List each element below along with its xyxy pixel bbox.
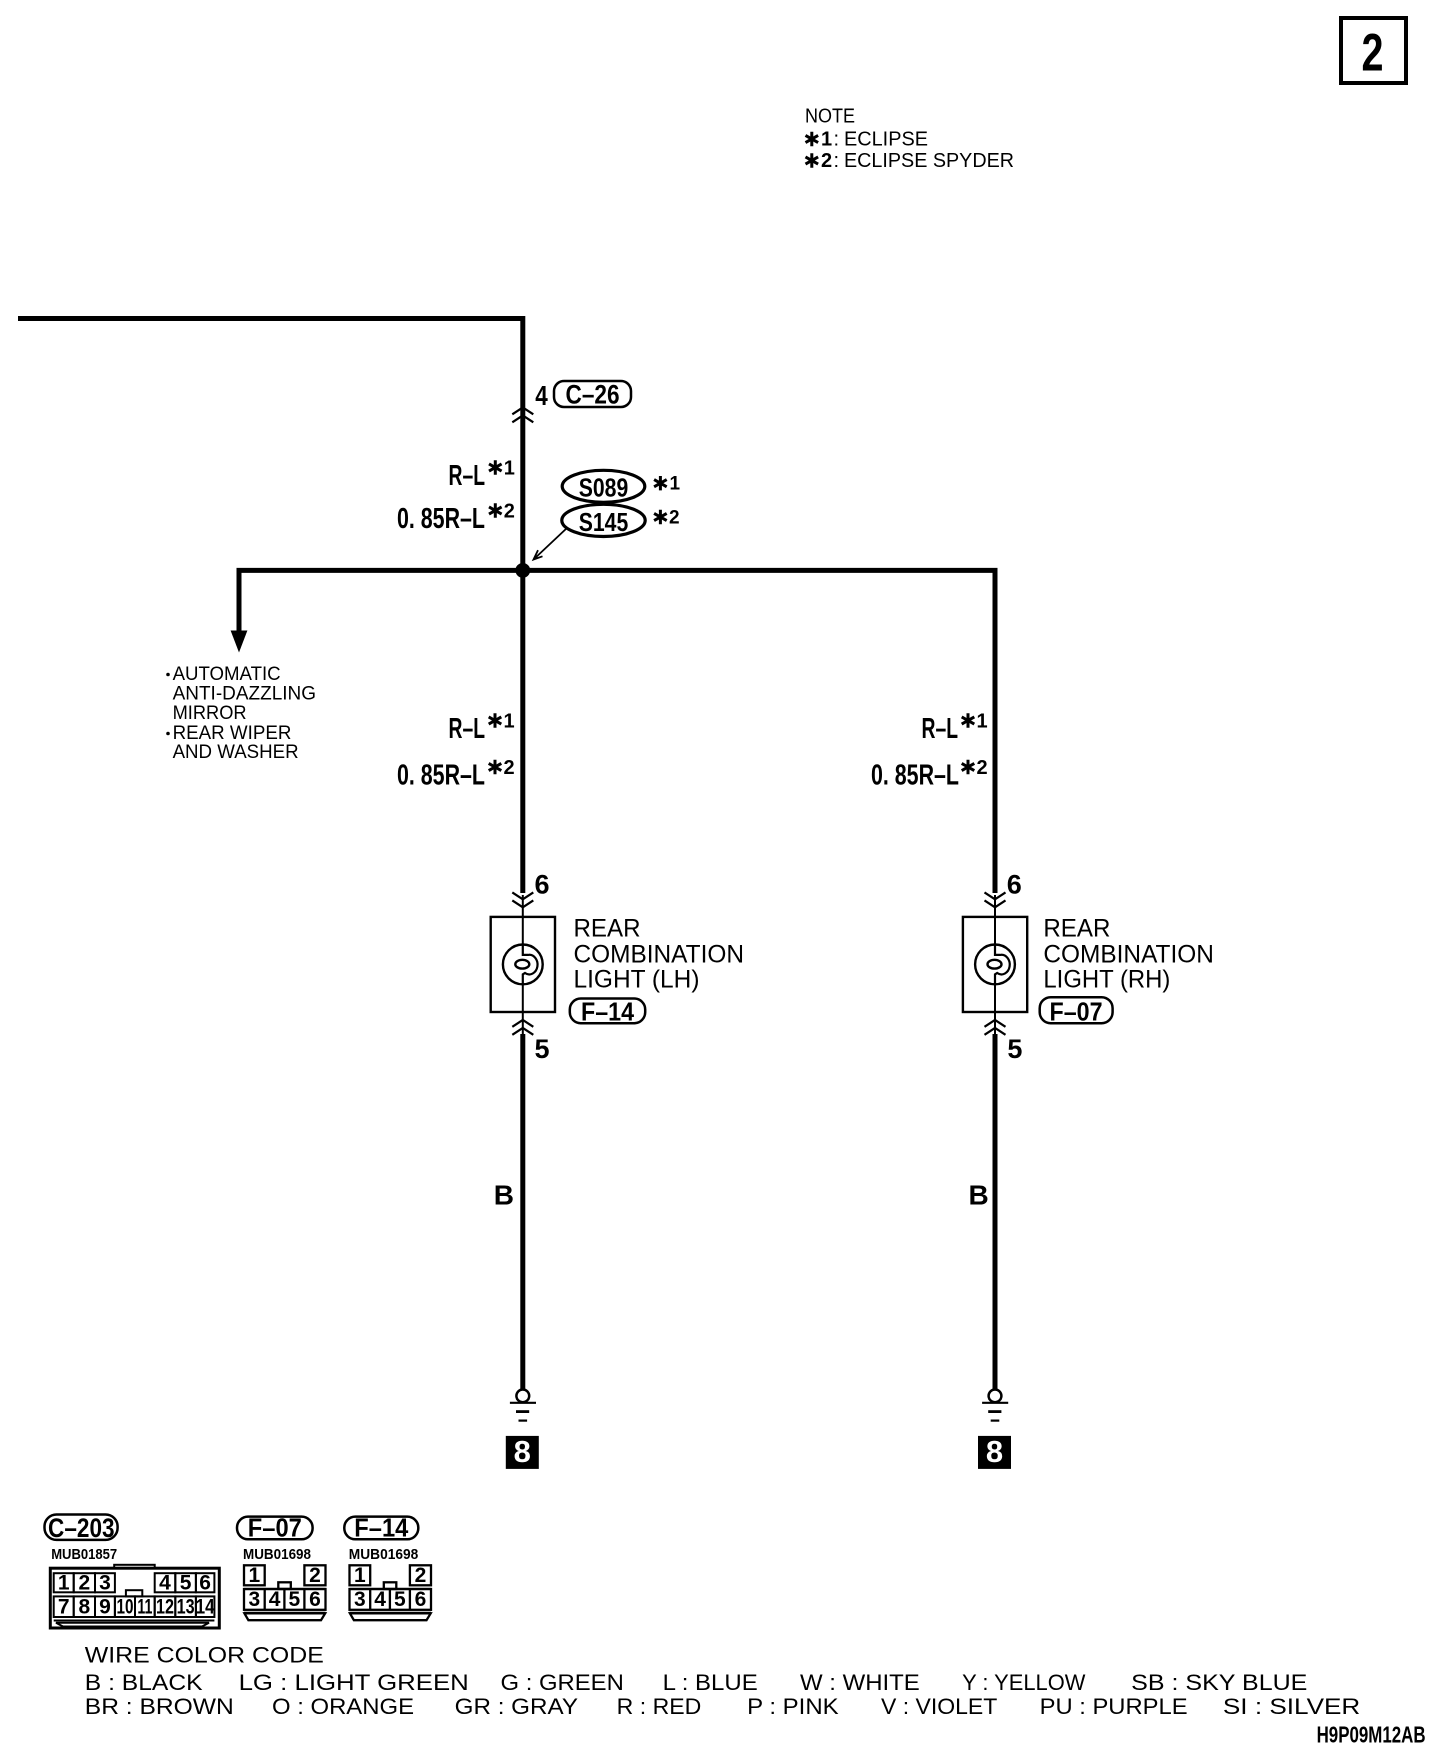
F-14 pin numbers bbox=[354, 1564, 426, 1611]
svg-text:4: 4 bbox=[374, 1588, 386, 1611]
svg-text:GR : GRAY: GR : GRAY bbox=[455, 1694, 579, 1719]
junction bus wire bbox=[237, 568, 998, 573]
svg-text:13: 13 bbox=[177, 1596, 195, 1619]
connector F-07 pinout bbox=[244, 1565, 326, 1620]
svg-text:COMBINATION: COMBINATION bbox=[574, 941, 745, 969]
svg-text:ECLIPSE: ECLIPSE bbox=[844, 129, 928, 151]
svg-text:AND WASHER: AND WASHER bbox=[173, 742, 299, 763]
svg-text:F–14: F–14 bbox=[354, 1513, 408, 1543]
RH lamp: thin lead out bbox=[994, 984, 996, 1034]
RH lamp: chevrons out of connector bbox=[985, 1020, 1006, 1035]
LH lamp: thin lead in bbox=[522, 895, 524, 944]
RH lamp: chevrons into connector bbox=[985, 892, 1006, 907]
svg-text:3: 3 bbox=[249, 1588, 261, 1611]
wire label R-L *1 (top) bbox=[449, 458, 515, 493]
svg-text:W : WHITE: W : WHITE bbox=[800, 1670, 920, 1695]
svg-text:2: 2 bbox=[669, 508, 680, 529]
svg-text:REAR: REAR bbox=[574, 915, 641, 943]
svg-text:5: 5 bbox=[394, 1588, 406, 1611]
connector F-07 label (RH lamp) bbox=[1040, 997, 1113, 1027]
svg-text:NOTE: NOTE bbox=[805, 106, 855, 128]
svg-text:C–203: C–203 bbox=[48, 1513, 115, 1543]
svg-text:9: 9 bbox=[99, 1596, 111, 1619]
svg-text:MIRROR: MIRROR bbox=[173, 703, 247, 724]
svg-text:1: 1 bbox=[670, 474, 681, 495]
svg-text:2: 2 bbox=[504, 501, 515, 523]
left branch destination text bbox=[166, 664, 316, 763]
svg-text:G : GREEN: G : GREEN bbox=[501, 1670, 624, 1695]
bulb LH bbox=[503, 944, 543, 984]
LH lamp: chevrons into connector bbox=[512, 892, 533, 907]
splice S145 bbox=[562, 504, 680, 537]
svg-text:B : BLACK: B : BLACK bbox=[85, 1670, 203, 1695]
svg-text:8: 8 bbox=[79, 1596, 91, 1619]
svg-text:MUB01698: MUB01698 bbox=[243, 1546, 311, 1563]
ground ref 8 (LH) bbox=[506, 1434, 539, 1469]
wire label R-L *1 (right mid) bbox=[922, 711, 988, 746]
RH ground wire bbox=[993, 1034, 998, 1389]
svg-text:4: 4 bbox=[269, 1588, 281, 1611]
svg-text:BR : BROWN: BR : BROWN bbox=[85, 1694, 234, 1719]
svg-text:5: 5 bbox=[534, 1034, 549, 1064]
svg-text:2: 2 bbox=[415, 1564, 427, 1587]
svg-text::: : bbox=[834, 129, 840, 151]
svg-text:2: 2 bbox=[309, 1564, 321, 1587]
svg-text:C–26: C–26 bbox=[566, 380, 620, 410]
svg-text:P : PINK: P : PINK bbox=[747, 1694, 839, 1719]
leader arrow from S145 to junction bbox=[534, 528, 568, 560]
svg-text:1: 1 bbox=[504, 711, 515, 733]
svg-text:1: 1 bbox=[58, 1572, 70, 1595]
svg-text:F–07: F–07 bbox=[1050, 997, 1103, 1027]
svg-text:10: 10 bbox=[116, 1596, 133, 1619]
svg-text:COMBINATION: COMBINATION bbox=[1043, 941, 1214, 969]
svg-text:MUB01698: MUB01698 bbox=[349, 1546, 419, 1563]
svg-text:1: 1 bbox=[977, 711, 988, 733]
F-07 pin numbers bbox=[249, 1564, 321, 1611]
connector C-203 label bbox=[45, 1513, 118, 1543]
svg-text:B: B bbox=[494, 1180, 514, 1211]
svg-text:5: 5 bbox=[1007, 1034, 1022, 1064]
svg-text:F–07: F–07 bbox=[248, 1513, 302, 1543]
svg-text:S089: S089 bbox=[579, 473, 629, 503]
svg-text:LIGHT (RH): LIGHT (RH) bbox=[1043, 966, 1170, 994]
svg-text:0. 85R–L: 0. 85R–L bbox=[397, 760, 485, 792]
svg-text:L : BLUE: L : BLUE bbox=[663, 1670, 758, 1695]
svg-text:LG : LIGHT GREEN: LG : LIGHT GREEN bbox=[239, 1670, 469, 1695]
svg-text:MUB01857: MUB01857 bbox=[51, 1546, 117, 1563]
svg-text:H9P09M12AB: H9P09M12AB bbox=[1317, 1721, 1426, 1747]
svg-text:7: 7 bbox=[58, 1596, 70, 1619]
svg-text:2: 2 bbox=[977, 757, 988, 779]
LH ground wire bbox=[520, 1034, 525, 1389]
svg-text:2: 2 bbox=[504, 757, 515, 779]
svg-text:1: 1 bbox=[504, 458, 515, 480]
svg-text:Y : YELLOW: Y : YELLOW bbox=[962, 1670, 1086, 1695]
svg-text:4: 4 bbox=[535, 380, 548, 411]
svg-text:6: 6 bbox=[1007, 870, 1022, 900]
ground RH bbox=[982, 1390, 1008, 1421]
LH lamp name text bbox=[574, 915, 745, 994]
svg-text:1: 1 bbox=[354, 1564, 366, 1587]
svg-text:REAR: REAR bbox=[1043, 915, 1110, 943]
connector C-26 label bbox=[554, 380, 631, 410]
svg-text:LIGHT (LH): LIGHT (LH) bbox=[574, 966, 700, 994]
svg-text:O : ORANGE: O : ORANGE bbox=[272, 1694, 414, 1719]
svg-text:14: 14 bbox=[196, 1596, 215, 1619]
svg-text:6: 6 bbox=[309, 1588, 321, 1611]
rear combination light RH box bbox=[963, 917, 1027, 1012]
note block bbox=[805, 106, 1014, 173]
svg-text:R : RED: R : RED bbox=[617, 1694, 702, 1719]
svg-text:6: 6 bbox=[199, 1572, 211, 1595]
RH lamp: thin lead in bbox=[994, 895, 996, 944]
svg-text:8: 8 bbox=[514, 1434, 531, 1469]
right branch wire down bbox=[993, 568, 998, 893]
svg-text::: : bbox=[834, 150, 840, 172]
wire label 0.85R-L *2 (left mid) bbox=[397, 757, 515, 792]
connector C-26 pass-through chevrons bbox=[512, 407, 533, 422]
svg-text:WIRE COLOR CODE: WIRE COLOR CODE bbox=[85, 1643, 324, 1668]
rear combination light LH box bbox=[491, 917, 555, 1012]
ground LH bbox=[510, 1390, 536, 1421]
svg-text:3: 3 bbox=[354, 1588, 366, 1611]
svg-text:B: B bbox=[968, 1180, 988, 1211]
svg-text:AUTOMATIC: AUTOMATIC bbox=[173, 664, 281, 685]
svg-text:PU : PURPLE: PU : PURPLE bbox=[1040, 1694, 1188, 1719]
svg-text:1: 1 bbox=[249, 1564, 261, 1587]
svg-text:5: 5 bbox=[289, 1588, 301, 1611]
wire: feed from top-left into middle vertical bbox=[18, 319, 523, 894]
connector F-14 label (LH lamp) bbox=[570, 997, 645, 1027]
LH lamp: thin lead out bbox=[522, 984, 524, 1034]
svg-text:1: 1 bbox=[821, 129, 832, 151]
connector F-07 label (bottom) bbox=[237, 1513, 313, 1543]
svg-text:2: 2 bbox=[1362, 24, 1384, 83]
ground ref 8 (RH) bbox=[978, 1434, 1011, 1469]
svg-text:8: 8 bbox=[986, 1434, 1003, 1469]
svg-text:R–L: R–L bbox=[922, 713, 959, 745]
wire label 0.85R-L *2 (right mid) bbox=[871, 757, 988, 792]
svg-text:6: 6 bbox=[534, 870, 549, 900]
svg-text:11: 11 bbox=[137, 1596, 152, 1619]
RH lamp name text bbox=[1043, 915, 1214, 994]
wire label 0.85R-L *2 (top) bbox=[397, 501, 515, 536]
svg-text:3: 3 bbox=[99, 1572, 111, 1595]
splice S089 bbox=[562, 470, 680, 502]
connector F-14 label (bottom) bbox=[344, 1513, 418, 1543]
svg-text:0. 85R–L: 0. 85R–L bbox=[397, 503, 485, 535]
connector F-14 pinout bbox=[350, 1565, 432, 1620]
svg-text:2: 2 bbox=[79, 1572, 91, 1595]
svg-text:REAR WIPER: REAR WIPER bbox=[173, 723, 292, 744]
C-203 pin numbers bbox=[58, 1572, 215, 1619]
svg-text:12: 12 bbox=[156, 1596, 174, 1619]
svg-text:V : VIOLET: V : VIOLET bbox=[881, 1694, 997, 1719]
svg-text:ECLIPSE SPYDER: ECLIPSE SPYDER bbox=[844, 150, 1014, 172]
wire color code legend bbox=[85, 1643, 1361, 1720]
LH lamp: chevrons out of connector bbox=[512, 1020, 533, 1035]
svg-text:R–L: R–L bbox=[449, 713, 486, 745]
svg-text:5: 5 bbox=[180, 1572, 192, 1595]
svg-text:R–L: R–L bbox=[449, 460, 486, 492]
wire label R-L *1 (left mid) bbox=[449, 711, 515, 746]
connector C-203 pinout bbox=[50, 1565, 219, 1628]
left branch wire with arrow bbox=[237, 568, 242, 631]
svg-text:SB : SKY BLUE: SB : SKY BLUE bbox=[1131, 1670, 1307, 1695]
svg-text:ANTI-DAZZLING: ANTI-DAZZLING bbox=[173, 684, 316, 705]
junction node bbox=[515, 563, 530, 578]
sheet number box 2 bbox=[1341, 18, 1406, 83]
bulb RH bbox=[975, 944, 1015, 984]
svg-text:F–14: F–14 bbox=[581, 997, 634, 1027]
svg-text:2: 2 bbox=[821, 150, 832, 172]
svg-text:0. 85R–L: 0. 85R–L bbox=[871, 760, 959, 792]
svg-text:6: 6 bbox=[415, 1588, 427, 1611]
svg-text:SI : SILVER: SI : SILVER bbox=[1223, 1694, 1360, 1719]
svg-text:S145: S145 bbox=[579, 507, 629, 537]
svg-text:4: 4 bbox=[159, 1572, 171, 1595]
